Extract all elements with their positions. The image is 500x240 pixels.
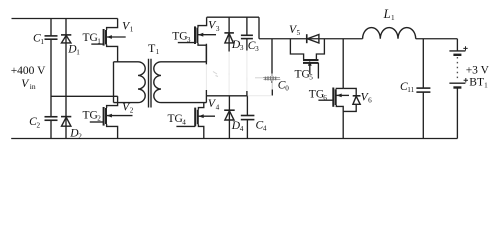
svg-text:1: 1 — [76, 49, 80, 57]
inductor L1 — [363, 28, 416, 39]
svg-text:TG: TG — [309, 89, 324, 101]
svg-text:3: 3 — [187, 36, 191, 44]
svg-text:4: 4 — [216, 103, 220, 111]
wire V6 branch top vertical — [342, 39, 344, 89]
svg-text:2: 2 — [97, 115, 101, 123]
wire secondary bottom lead — [161, 102, 206, 104]
svg-text:1: 1 — [97, 37, 101, 45]
battery BT1 — [449, 39, 468, 139]
svg-text:TG: TG — [168, 113, 183, 125]
wire secondary midpoint bus (right part faded) — [206, 95, 247, 97]
capacitor C3 — [241, 35, 253, 38]
svg-text:1: 1 — [40, 38, 44, 46]
capacitor C1 — [45, 36, 58, 39]
svg-text:3: 3 — [240, 44, 244, 52]
transistor V3 (MOSFET) — [178, 17, 216, 62]
svg-text:3: 3 — [216, 25, 220, 33]
wire DC link top — [259, 38, 363, 40]
capacitor C0 (faded, JPEG-smudged) — [263, 78, 280, 80]
wire C3 branch (faded in middle) — [246, 17, 248, 96]
svg-text:2: 2 — [130, 107, 134, 115]
wire C0 vertical (fades near plates) — [271, 39, 273, 96]
wire secondary center vertical (faded in middle) — [205, 44, 207, 103]
wire transformer primary top lead — [114, 61, 139, 63]
wire primary midpoint bus — [51, 95, 118, 97]
transformer T1 secondary winding — [154, 62, 161, 103]
svg-text:TG: TG — [295, 68, 310, 80]
wire transformer primary left vertical — [113, 62, 115, 103]
svg-text:+3 V: +3 V — [466, 65, 490, 77]
transistor V4 (MOSFET) — [176, 103, 215, 139]
diode of V5 — [307, 34, 319, 43]
capacitor C11 — [416, 39, 430, 139]
wire D3 branch (lower part faded) — [228, 17, 230, 51]
wire after L1 to battery — [416, 38, 458, 40]
svg-text:TG: TG — [172, 31, 187, 43]
diode of V6 (body diode) — [343, 88, 360, 111]
transistor V5 (MOSFET, horizontal) — [290, 39, 324, 79]
svg-text:4: 4 — [263, 125, 267, 133]
transformer T1 core — [149, 59, 152, 108]
svg-text:+400 V: +400 V — [11, 65, 46, 77]
svg-text:L: L — [383, 7, 391, 21]
transformer T1 primary winding — [138, 62, 145, 103]
svg-text:in: in — [30, 82, 36, 91]
svg-text:4: 4 — [182, 118, 186, 126]
wire bottom rail — [11, 138, 457, 140]
diode D2 — [61, 117, 71, 127]
wire D1-D2 branch vertical — [65, 19, 67, 139]
wire secondary top rail — [207, 16, 259, 18]
transistor V1 (MOSFET) — [91, 19, 125, 62]
svg-text:TG: TG — [83, 32, 98, 44]
capacitor C2 — [45, 117, 58, 121]
diode D3 — [224, 33, 234, 43]
svg-text:TG: TG — [83, 110, 98, 122]
svg-text:2: 2 — [78, 133, 82, 141]
wire primary top rail — [12, 18, 118, 20]
faded remnant smudges — [206, 51, 271, 96]
wire D4 branch — [228, 96, 230, 139]
diode D4 — [224, 110, 235, 120]
svg-text:1: 1 — [391, 14, 395, 22]
svg-text:6: 6 — [323, 94, 327, 102]
wire C1-C2 branch vertical — [50, 19, 52, 139]
wire step down to DC link — [258, 17, 260, 39]
svg-text:5: 5 — [297, 29, 301, 37]
wire transformer primary bottom lead — [114, 102, 139, 104]
svg-text:5: 5 — [309, 74, 313, 82]
svg-text:6: 6 — [368, 97, 372, 105]
wire secondary top lead — [161, 61, 206, 63]
svg-text:BT: BT — [469, 76, 484, 88]
capacitor C4 — [241, 116, 255, 120]
transistor V2 (MOSFET) — [90, 96, 133, 138]
svg-text:3: 3 — [255, 45, 259, 53]
svg-text:1: 1 — [130, 26, 134, 34]
svg-text:4: 4 — [240, 125, 244, 133]
svg-text:1: 1 — [484, 82, 488, 90]
svg-text:1: 1 — [156, 48, 160, 56]
svg-text:0: 0 — [285, 85, 289, 93]
diode D1 — [61, 35, 71, 43]
wire C4 branch — [246, 96, 248, 139]
svg-text:11: 11 — [407, 86, 414, 94]
svg-text:2: 2 — [37, 121, 41, 129]
transistor V6 (MOSFET) — [318, 88, 349, 139]
